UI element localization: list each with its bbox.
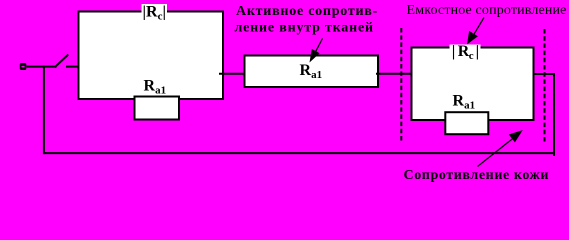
arrow from caption to skin block xyxy=(478,130,523,167)
dashed boundary right (skin region) xyxy=(544,29,546,143)
svg-text:|Rc|: |Rc| xyxy=(143,4,167,23)
wire: middle resistor to right block xyxy=(376,73,413,75)
wire: input to switch xyxy=(26,66,56,68)
svg-text:Емкостное сопротивление: Емкостное сопротивление xyxy=(407,3,567,18)
svg-text:Активное сопротив-: Активное сопротив- xyxy=(236,4,378,19)
block 2: parallel RC loop (skin) xyxy=(412,48,534,121)
wire: bottom return conductor xyxy=(43,152,555,154)
svg-text:ление внутр тканей: ление внутр тканей xyxy=(235,21,374,36)
arrow from caption to middle resistor xyxy=(310,39,323,63)
dashed boundary left (skin region) xyxy=(400,28,402,142)
block 1: parallel RC loop (outer skin) xyxy=(79,12,224,100)
resistor box of block 2 xyxy=(445,112,488,134)
wire: right block output xyxy=(532,73,555,75)
capacitor label | Rc | of block 2 (white backing) xyxy=(450,43,481,62)
input terminal (electrode symbol) xyxy=(20,63,27,70)
switch S1 (open blade) xyxy=(55,55,69,68)
resistor Ra1 (internal tissues) box xyxy=(245,56,379,88)
capacitor label |Rc| of block 1 (white backing) xyxy=(142,4,168,23)
arrow from caption to block 2 capacitor label xyxy=(467,18,484,45)
resistor box of block 1 xyxy=(135,97,180,120)
svg-text:Сопротивление кожи: Сопротивление кожи xyxy=(404,168,550,183)
wire: right vertical return xyxy=(553,73,555,156)
wire: block 1 to middle resistor xyxy=(219,73,245,75)
wire: switch to block 1 xyxy=(66,66,79,68)
wire: left vertical return branch xyxy=(43,66,45,155)
